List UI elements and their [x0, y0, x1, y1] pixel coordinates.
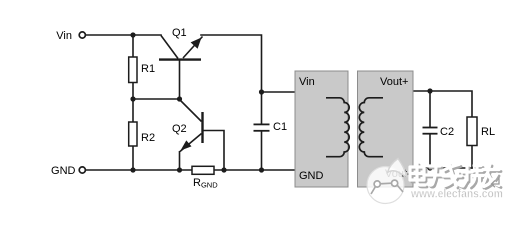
wire RL bottom lead [471, 146, 473, 169]
resistor R1 [129, 57, 137, 83]
capacitor C2 [423, 128, 438, 134]
svg-text:Vin: Vin [56, 30, 72, 42]
resistor RL [467, 117, 477, 146]
junction C1 / converter Vin pin [259, 89, 264, 94]
junction R2 / GND rail [130, 167, 135, 172]
junction C1 / GND rail [259, 167, 264, 172]
junction Q1 base / Q2 collector [177, 96, 182, 101]
terminal GND [79, 167, 85, 173]
junction R1 / R2 / Q1 base node [130, 96, 135, 101]
svg-text:R1: R1 [141, 63, 155, 75]
svg-text:Q2: Q2 [172, 123, 187, 135]
transistor Q2 [180, 100, 225, 171]
transistor Q1 [159, 36, 203, 100]
svg-text:www.elecfans.com: www.elecfans.com [410, 188, 503, 201]
capacitor C1 [254, 124, 270, 130]
svg-text:R2: R2 [141, 132, 155, 144]
svg-text:Q1: Q1 [172, 27, 187, 39]
junction Q2 base lead / RGND right [221, 167, 226, 172]
svg-text:GND: GND [299, 170, 324, 182]
inductor primary winding [326, 98, 349, 157]
converter module left box [295, 71, 348, 187]
wire C2 bottom lead [429, 135, 431, 169]
svg-text:C2: C2 [440, 126, 454, 138]
svg-text:GND: GND [51, 165, 76, 177]
svg-text:C1: C1 [273, 121, 287, 133]
wire C1 lower segment [261, 132, 263, 171]
terminal Vin [79, 32, 85, 38]
junction Q2 emitter / RGND left [177, 167, 182, 172]
wire Vout- rail [413, 167, 472, 169]
watermark group [367, 159, 503, 204]
wire Vout+ rail [413, 91, 472, 117]
wire C2 top lead [429, 91, 431, 127]
resistor R2 [129, 122, 137, 146]
inductor secondary winding [359, 98, 383, 157]
watermark chinese text white [410, 163, 499, 187]
wire GND bottom rail [86, 169, 296, 171]
wire node A horizontal [133, 98, 180, 100]
watermark chinese text shadow [412, 165, 501, 189]
wire Vin top rail [86, 34, 162, 36]
resistor RGND [192, 166, 214, 174]
converter module right box [358, 71, 414, 187]
watermark flame logo [367, 159, 407, 204]
wire Q1 emitter to C1 top corner [201, 35, 262, 124]
svg-text:Vin: Vin [299, 76, 315, 88]
junction Vin / R1 [130, 32, 135, 37]
wire R1 R2 vertical [132, 35, 134, 170]
wire branch to converter Vin pin [262, 91, 296, 93]
watermark return arrow [492, 178, 500, 188]
svg-text:RL: RL [481, 126, 495, 138]
junction Vout- / C2 bottom [427, 165, 432, 170]
junction Vout+ / C2 top [427, 88, 432, 93]
svg-text:Vout+: Vout+ [380, 76, 408, 88]
